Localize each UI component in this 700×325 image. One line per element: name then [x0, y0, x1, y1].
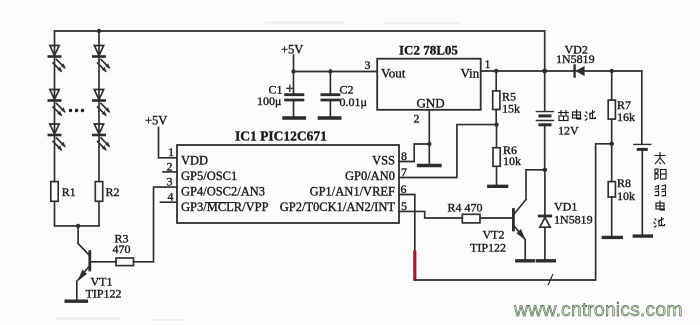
wire VT1 base to R3 [91, 261, 116, 263]
char chi [585, 110, 596, 121]
svg-text:VD1: VD1 [554, 200, 577, 214]
svg-text:R1: R1 [62, 185, 76, 199]
char xu [558, 110, 569, 121]
wire LED string 1 [54, 31, 56, 182]
supply +5V to pin 1 [159, 128, 178, 158]
diode VD1 [539, 170, 550, 259]
pin 4 stub [161, 201, 178, 203]
wire IC2 Vin to solar rail [481, 70, 642, 72]
resistor R3 [116, 258, 134, 266]
diode VD2 [575, 66, 585, 77]
ground solar [634, 234, 651, 237]
label battery Chinese xudianchi [558, 110, 596, 121]
resistor R4 [462, 214, 480, 223]
wire bottom rail [415, 144, 610, 280]
voltage regulator IC2 78L05 box [377, 59, 481, 110]
char yang [655, 169, 666, 180]
svg-text:100μ: 100μ [257, 94, 281, 108]
wire red highlighted segment [413, 252, 416, 279]
overline MCLR [205, 202, 236, 204]
node R5 top [494, 69, 498, 73]
node R7/R8 [610, 142, 614, 146]
node battery minus [543, 168, 547, 172]
char tai [655, 152, 666, 164]
svg-text:VT2: VT2 [483, 228, 505, 242]
ground C1 [284, 116, 304, 119]
resistor R8 [608, 144, 615, 236]
resistor R6 [493, 125, 500, 185]
node R7 top [610, 69, 614, 73]
LED D1b [49, 90, 66, 117]
capacitor C1 [286, 72, 303, 117]
LED D1a [49, 46, 66, 73]
svg-text:TIP122: TIP122 [86, 287, 122, 301]
node R5/R6 [494, 122, 498, 126]
pin 7 wire to R5/R6 divider [399, 125, 495, 178]
svg-text:10k: 10k [617, 189, 635, 203]
svg-text:GP1/AN1/VREF: GP1/AN1/VREF [310, 185, 395, 199]
LED D1c [49, 124, 66, 151]
svg-text:Vout: Vout [381, 66, 406, 81]
ground R6 [489, 185, 507, 188]
svg-text:IC1 PIC12C671: IC1 PIC12C671 [235, 129, 327, 144]
scan smudge top [56, 23, 460, 321]
svg-text:8: 8 [401, 149, 407, 163]
ground IC2 [419, 164, 441, 167]
resistor R5 [493, 71, 500, 125]
ground VT2 emitter [517, 259, 533, 262]
svg-text:1: 1 [168, 145, 174, 159]
tick on bottom rail [548, 275, 552, 285]
svg-text:TIP122: TIP122 [470, 241, 506, 255]
char chi2 [654, 217, 665, 228]
svg-text:3: 3 [167, 175, 173, 189]
svg-text:VDD: VDD [181, 154, 208, 168]
svg-text:www.cntronics.com: www.cntronics.com [513, 299, 683, 321]
svg-text:GP0/AN0: GP0/AN0 [345, 169, 395, 183]
IC2 GND pin 2 wire [428, 110, 430, 164]
wire +5V node to IC2 Vout [293, 55, 295, 72]
ground VD1 [537, 259, 554, 262]
svg-text:15k: 15k [502, 102, 520, 116]
pin 2 stub [163, 171, 177, 173]
ground R8 [603, 236, 621, 239]
resistor R1 [51, 182, 58, 202]
node C1 [291, 69, 295, 73]
capacitor C2 [322, 72, 339, 117]
svg-text:5: 5 [401, 199, 407, 213]
node pin8/IC2gnd [427, 142, 431, 146]
solar cell BT2 [634, 71, 651, 234]
svg-text:GP4/OSC2/AN3: GP4/OSC2/AN3 [181, 185, 265, 199]
svg-text:1: 1 [485, 57, 491, 71]
wire R1 bottom [54, 201, 56, 226]
char dian [573, 110, 581, 120]
node collector junction [76, 224, 80, 228]
resistor R7 [608, 71, 615, 144]
svg-text:R2: R2 [106, 185, 120, 199]
op-amp U1: IC1 PIC12C671 box [177, 145, 399, 223]
svg-text:6: 6 [401, 182, 407, 196]
svg-text:16k: 16k [617, 110, 635, 124]
svg-text:VSS: VSS [372, 154, 395, 168]
ground VT1 emitter [66, 300, 86, 303]
svg-text:10k: 10k [503, 154, 521, 168]
char dian2 [656, 201, 664, 211]
svg-text:2: 2 [167, 160, 173, 174]
svg-text:R8: R8 [617, 176, 631, 190]
char neng [655, 185, 666, 196]
transistor VT1 [77, 226, 90, 300]
wire R4 to VT2 base [480, 217, 512, 219]
pin 6 wire down [399, 194, 415, 196]
LED D2b [93, 90, 110, 117]
LED D2a [93, 46, 110, 73]
svg-text:2: 2 [414, 112, 420, 126]
svg-text:3: 3 [365, 58, 371, 72]
pin 5 wire to R4 [399, 211, 462, 218]
battery GB1 12V [536, 112, 553, 170]
node LED rail junction [97, 29, 101, 33]
transistor VT2 [513, 170, 526, 259]
svg-text:Vin: Vin [461, 66, 480, 81]
ellipsis more strings [69, 109, 84, 112]
svg-text:GP2/T0CK1/AN2/INT: GP2/T0CK1/AN2/INT [280, 200, 396, 214]
svg-text:+5V: +5V [281, 43, 303, 57]
svg-text:+5V: +5V [145, 114, 167, 128]
wire R3 to pin3 [134, 187, 178, 262]
svg-text:7: 7 [401, 165, 407, 179]
node C2 [328, 69, 332, 73]
wire battery top rail drop [544, 31, 546, 111]
svg-text:IC2 78L05: IC2 78L05 [399, 43, 458, 58]
svg-text:R4 470: R4 470 [448, 201, 483, 215]
ground C2 [319, 116, 339, 119]
wire strings join [55, 225, 100, 227]
wire top supply rail [55, 30, 545, 32]
svg-text:GND: GND [417, 96, 445, 111]
wire LED string 2 [98, 31, 100, 182]
svg-text:1N5819: 1N5819 [554, 213, 593, 227]
svg-text:1N5819: 1N5819 [556, 52, 595, 66]
node Vin junction [542, 69, 547, 74]
svg-text:4: 4 [168, 190, 174, 204]
wire VT2 collector to battery minus [526, 169, 545, 171]
LED D2c [93, 124, 110, 151]
svg-text:GP5/OSC1: GP5/OSC1 [181, 169, 237, 183]
svg-text:12V: 12V [558, 124, 579, 138]
svg-text:0.01μ: 0.01μ [340, 95, 367, 109]
wire R2 bottom [98, 201, 100, 226]
pin 8 wire to ground node [399, 144, 429, 162]
resistor R2 [95, 182, 102, 202]
svg-text:470: 470 [113, 242, 131, 256]
label solar cell Chinese taiyangnengdianchi [654, 152, 667, 228]
